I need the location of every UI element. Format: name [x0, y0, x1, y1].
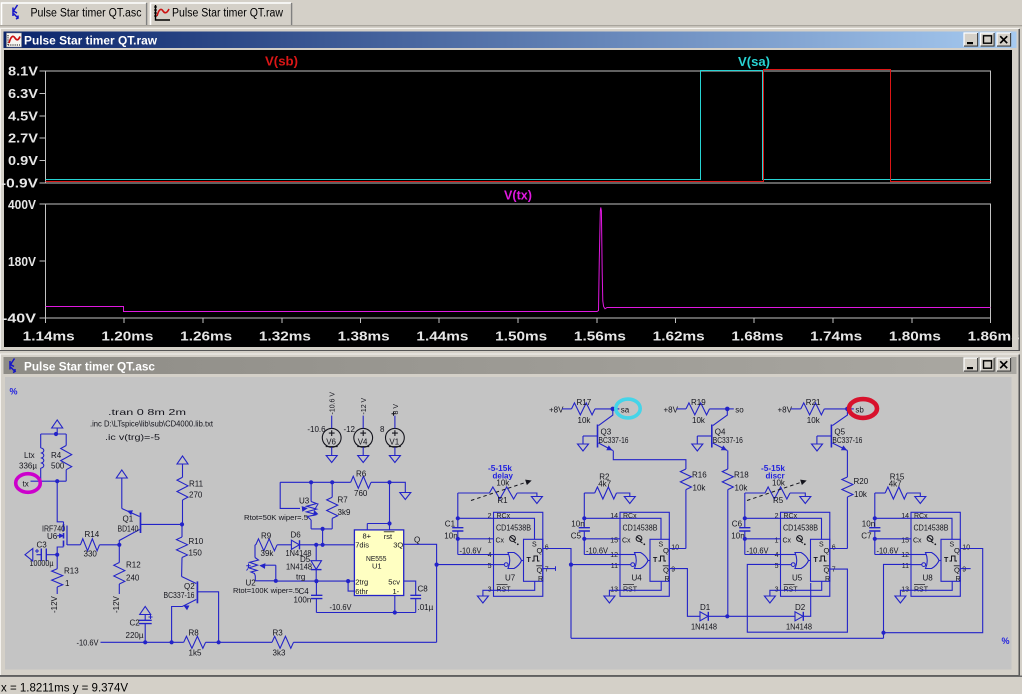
wire U7 Q out: [543, 549, 571, 639]
node junction U8 loop: [881, 631, 885, 635]
wire U5 Cx pin: [745, 538, 781, 540]
svg-text:3k3: 3k3: [273, 649, 286, 658]
node junction Q1 base/R11/R10: [180, 522, 184, 526]
svg-text:Q1: Q1: [123, 515, 134, 524]
svg-text:Ltx: Ltx: [24, 451, 35, 460]
wire bottom rail to node tx: [31, 480, 67, 482]
diode D1 1N4148: [700, 612, 708, 621]
capacitor C8 .01u: [410, 595, 421, 598]
ground at U7 RST: [477, 596, 488, 603]
wire U7 A-input -10.6V: [458, 554, 494, 556]
svg-text:Q2: Q2: [184, 582, 195, 591]
wire U7 Cx pin: [458, 538, 494, 540]
node junction top Ltx/R4: [54, 432, 58, 436]
ground below V6: [326, 456, 337, 463]
wire R6 node rail: [280, 481, 351, 483]
svg-text:1.14ms: 1.14ms: [23, 329, 75, 344]
resistor R17 10k: [562, 408, 572, 410]
wire to U4 pin11: [571, 564, 620, 566]
node junction U7Q/U4 trigger: [569, 563, 573, 567]
svg-text:Q: Q: [537, 546, 543, 555]
svg-text:0.9V: 0.9V: [8, 154, 39, 168]
wire U5 RCx pin: [745, 517, 781, 519]
svg-text:Q: Q: [824, 566, 830, 575]
wire NE555 supply pins 8 and rst: [389, 482, 391, 530]
svg-text:U3: U3: [299, 497, 310, 506]
svg-text:1.50ms: 1.50ms: [495, 329, 547, 344]
svg-text:10k: 10k: [693, 484, 707, 493]
resistor R18 10k: [722, 469, 733, 490]
svg-text:C7: C7: [861, 532, 872, 541]
svg-text:-10.6V: -10.6V: [877, 547, 900, 556]
IC U4 CD14538B: [620, 512, 669, 596]
wire U8 Q feedback loop: [884, 549, 983, 633]
op-amp timer U1 NE555: [354, 530, 403, 596]
svg-text:T: T: [527, 557, 532, 564]
svg-text:8+: 8+: [363, 531, 372, 540]
svg-text:12: 12: [610, 552, 618, 559]
annotation cyan circle around sa: [616, 399, 640, 418]
svg-text:Q: Q: [954, 546, 960, 555]
wire U7 RST to ground: [483, 581, 535, 596]
svg-text:U4: U4: [632, 574, 643, 583]
svg-text:1N4148: 1N4148: [286, 563, 313, 572]
svg-text:Q: Q: [414, 536, 420, 545]
resistor R20 10k: [842, 477, 853, 497]
potentiometer U3: [310, 482, 312, 501]
svg-text:10n: 10n: [444, 532, 457, 541]
svg-text:220µ: 220µ: [126, 631, 144, 640]
ground below V1: [389, 456, 400, 463]
svg-text:CD14538B: CD14538B: [496, 524, 531, 533]
svg-text:R20: R20: [854, 477, 869, 486]
svg-text:Cx: Cx: [913, 538, 922, 545]
svg-text:6thr: 6thr: [355, 587, 368, 596]
wire U4 Q to R16: [669, 548, 686, 550]
svg-text:-12V: -12V: [50, 595, 59, 613]
wire R3 to NE555 output node: [294, 641, 437, 643]
ground at U4 RST: [604, 596, 615, 603]
svg-text:C8: C8: [418, 585, 429, 594]
node junction C3/source: [55, 553, 59, 557]
wire U8 A-input -10.6V: [875, 554, 911, 556]
node junction bottom link: [321, 527, 325, 531]
svg-text:3Q: 3Q: [393, 540, 403, 549]
wire U8 trigger column: [884, 564, 912, 638]
resistor R19 10k: [677, 408, 687, 410]
wire U6 gate to R14: [67, 544, 80, 546]
node junction R18/diodes: [725, 614, 729, 618]
svg-text:1.62ms: 1.62ms: [653, 329, 705, 344]
svg-text:Q: Q: [954, 566, 960, 575]
wire down to D6 line: [322, 529, 324, 545]
svg-text:R: R: [956, 576, 961, 583]
svg-text:150: 150: [189, 549, 203, 558]
svg-text:10n: 10n: [731, 532, 744, 541]
svg-text:R14: R14: [85, 530, 100, 539]
svg-text:Cx: Cx: [622, 538, 631, 545]
svg-text:3k9: 3k9: [338, 508, 351, 517]
diode D5 1N4148 (vertical): [315, 545, 317, 561]
ground at Q4 base: [692, 444, 703, 451]
wire thr jog: [348, 581, 354, 591]
resistor R7 3k9: [331, 482, 333, 497]
wire U4 Cx pin: [584, 538, 620, 540]
svg-text:100n: 100n: [294, 596, 312, 605]
svg-text:R17: R17: [577, 398, 592, 407]
node junction Q2 collector/rail: [217, 640, 221, 644]
wire Q3 emitter to R16: [613, 451, 686, 470]
svg-text:1N4148: 1N4148: [786, 623, 813, 632]
wire D6 to NE555 dis pin: [300, 544, 355, 546]
resistor R10 150: [181, 524, 183, 537]
svg-text:Q: Q: [537, 566, 543, 575]
svg-text:trg: trg: [296, 573, 305, 582]
wire top rail Ltx/R4: [41, 433, 66, 435]
svg-text:+8V: +8V: [664, 405, 679, 414]
svg-text:R18: R18: [734, 471, 749, 480]
svg-text:R19: R19: [691, 398, 706, 407]
svg-text:sb: sb: [855, 405, 864, 414]
svg-text:5cv: 5cv: [388, 578, 400, 587]
svg-text:1.32ms: 1.32ms: [259, 329, 311, 344]
svg-text:330: 330: [84, 550, 98, 559]
svg-text:C6: C6: [732, 520, 743, 529]
ground below V4: [358, 456, 369, 463]
svg-text:R5: R5: [773, 496, 784, 505]
svg-text:-12: -12: [343, 425, 355, 434]
node junction Q2 emitter/rail: [170, 640, 174, 644]
svg-text:7: 7: [545, 567, 549, 574]
svg-text:-0.9V: -0.9V: [1, 177, 39, 191]
svg-text:1.80ms: 1.80ms: [889, 329, 941, 344]
svg-text:R1: R1: [497, 496, 508, 505]
svg-text:R: R: [825, 576, 830, 583]
svg-text:tx: tx: [23, 480, 29, 489]
capacitor C2 220u: [144, 615, 146, 621]
capacitor C4 100n: [315, 581, 317, 595]
wire NE555 5cv to C8: [404, 581, 416, 595]
ground at R15: [915, 497, 926, 504]
svg-text:4k7: 4k7: [889, 480, 902, 489]
node sb: [845, 407, 850, 412]
svg-text:R13: R13: [64, 567, 79, 576]
svg-text:10n: 10n: [571, 520, 584, 529]
wire D2 to U5 R pin: [803, 583, 810, 616]
svg-text:Q: Q: [824, 546, 830, 555]
capacitor C3 10000u: [40, 549, 42, 562]
svg-text:39k: 39k: [261, 549, 275, 558]
resistor R9 39k: [254, 544, 257, 546]
svg-text:Cx: Cx: [496, 538, 505, 545]
voltage source V1: [386, 428, 405, 447]
svg-text:240: 240: [126, 574, 140, 583]
svg-text:U5: U5: [792, 574, 803, 583]
ground at R5: [800, 497, 811, 504]
svg-text:T: T: [653, 557, 658, 564]
svg-text:R8: R8: [189, 629, 200, 638]
svg-text:RCx: RCx: [497, 513, 511, 520]
svg-text:10k: 10k: [854, 490, 868, 499]
svg-text:-10.6: -10.6: [307, 425, 326, 434]
svg-text:BC337-16: BC337-16: [832, 436, 862, 445]
svg-text:R21: R21: [806, 398, 821, 407]
node junction U3 drop: [321, 543, 325, 547]
resistor R15 4k7: [875, 492, 885, 494]
wire R9 to D6: [277, 544, 291, 546]
node junction 555Q to U7 trigger: [435, 563, 439, 567]
svg-text:U7: U7: [505, 574, 516, 583]
svg-text:CD14538B: CD14538B: [914, 524, 949, 533]
svg-text:760: 760: [354, 489, 368, 498]
svg-text:8: 8: [380, 425, 385, 434]
resistor R8 1k5: [184, 636, 206, 648]
svg-text:10k: 10k: [692, 416, 706, 425]
svg-text:R6: R6: [356, 470, 367, 479]
svg-text:10k: 10k: [735, 484, 749, 493]
svg-text:400V: 400V: [8, 198, 37, 212]
svg-text:R16: R16: [692, 471, 707, 480]
svg-text:BD140: BD140: [118, 525, 139, 534]
svg-text:T: T: [814, 557, 819, 564]
svg-text:CD14538B: CD14538B: [623, 524, 658, 533]
svg-text:12: 12: [901, 552, 909, 559]
wire U5 Qbar feedback loop: [747, 564, 847, 632]
svg-text:2.7V: 2.7V: [8, 132, 39, 146]
svg-text:so: so: [735, 405, 744, 414]
resistor R11 270: [182, 464, 184, 477]
ground at Q5 base: [812, 444, 823, 451]
resistor R14 330: [80, 539, 99, 551]
svg-text:1-: 1-: [393, 587, 400, 596]
svg-text:10k: 10k: [578, 416, 592, 425]
svg-text:4: 4: [488, 552, 492, 559]
diode D6 1N4148: [291, 540, 299, 549]
resistor R1 10k: [458, 492, 490, 494]
svg-text:-12 V: -12 V: [361, 397, 368, 414]
svg-text:RCx: RCx: [914, 513, 928, 520]
svg-text:1.38ms: 1.38ms: [338, 329, 390, 344]
svg-text:U8: U8: [923, 574, 934, 583]
diode D2 1N4148: [795, 612, 803, 621]
svg-text:-40V: -40V: [2, 312, 37, 326]
svg-text:R12: R12: [126, 561, 141, 570]
svg-text:4k7: 4k7: [598, 480, 611, 489]
svg-text:T: T: [944, 557, 949, 564]
svg-text:-12V: -12V: [112, 595, 121, 613]
svg-text:R4: R4: [51, 451, 62, 460]
svg-text:336µ: 336µ: [19, 462, 37, 471]
ground at R2: [624, 497, 635, 504]
resistor R4: [65, 434, 67, 446]
wire 555 bottom rail: [316, 612, 415, 614]
wire NE555 Q to U7 pin5: [437, 564, 494, 566]
capacitor C5 10n: [583, 493, 585, 528]
svg-text:V1: V1: [389, 437, 399, 446]
svg-text:-10.6V: -10.6V: [586, 547, 609, 556]
resistor R21 10k: [791, 408, 801, 410]
svg-text:8.1V: 8.1V: [8, 65, 39, 79]
node junction R14/R12/Q1: [117, 543, 121, 547]
svg-text:R: R: [538, 576, 543, 583]
IC U5 CD14538B: [781, 512, 830, 596]
svg-text:BC337-16: BC337-16: [164, 591, 195, 600]
transistor Q5 BC337-16: [830, 425, 832, 448]
svg-text:4.5V: 4.5V: [8, 109, 39, 123]
svg-text:1.26ms: 1.26ms: [180, 329, 232, 344]
wire -10.6V rail: [101, 641, 184, 643]
svg-text:9: 9: [671, 567, 675, 574]
voltage source V6: [322, 428, 341, 447]
resistor R12 240: [118, 545, 120, 563]
svg-text:R10: R10: [189, 537, 204, 546]
svg-text:R3: R3: [273, 629, 284, 638]
IC U7 CD14538B: [494, 512, 543, 596]
inductor Ltx: [40, 434, 42, 448]
resistor R3 3k3: [272, 636, 294, 648]
svg-text:11: 11: [902, 563, 909, 570]
svg-text:BC337-16: BC337-16: [599, 436, 629, 445]
svg-text:1.86ms: 1.86ms: [968, 329, 1020, 344]
power flag left of C3: [25, 549, 33, 562]
ground at U5 RST: [764, 596, 775, 603]
svg-text:rst: rst: [384, 532, 393, 541]
transistor Q3 BC337-16: [597, 425, 599, 448]
svg-text:V6: V6: [326, 437, 336, 446]
capacitor C7 10n: [874, 493, 876, 528]
node junction trg/C4: [314, 579, 318, 583]
svg-text:1N4148: 1N4148: [691, 623, 718, 632]
transistor Q1 BD140: [121, 478, 123, 509]
capacitor C6 10n: [744, 493, 746, 528]
wire U3/R7 bottom: [311, 528, 332, 530]
IC U8 CD14538B: [911, 512, 960, 596]
resistor R2 4k7: [584, 492, 594, 494]
node junction U3 top: [309, 480, 313, 484]
svg-text:-10.6V: -10.6V: [330, 603, 353, 612]
svg-text:V(sa): V(sa): [738, 55, 770, 69]
svg-text:C1: C1: [445, 520, 456, 529]
transistor Q2 BC337-16: [196, 581, 198, 603]
wire NE555 output Q: [404, 544, 437, 642]
voltage source V4: [354, 428, 373, 447]
svg-text:-10.6V: -10.6V: [460, 547, 483, 556]
svg-text:1: 1: [65, 579, 70, 588]
wire U7 Qbar stub: [543, 568, 556, 570]
svg-text:.tran 0 8m 2m: .tran 0 8m 2m: [108, 407, 186, 417]
wire U7 RCx pin: [458, 517, 494, 519]
wire U4 A-input -10.6V: [584, 554, 620, 556]
wire U8 RCx pin: [875, 517, 911, 519]
wire U4 RST to ground: [609, 581, 661, 596]
svg-text:.01µ: .01µ: [418, 603, 434, 612]
wire U4 RCx pin: [584, 517, 620, 519]
ground at U8 RST: [895, 596, 906, 603]
wire U2 bottom / trg net: [255, 565, 275, 581]
svg-text:delay: delay: [493, 472, 514, 481]
svg-text:RCx: RCx: [623, 513, 637, 520]
svg-text:.inc D:\LTspice\lib\sub\CD4000: .inc D:\LTspice\lib\sub\CD4000.lib.txt: [90, 419, 214, 429]
svg-text:BC337-16: BC337-16: [713, 436, 743, 445]
svg-text:R9: R9: [261, 532, 272, 541]
node junction C2/rail: [143, 640, 147, 644]
svg-text:CD14538B: CD14538B: [783, 524, 818, 533]
wire U4 Qbar to D1: [669, 569, 700, 617]
wire long U7Q to U8 column: [571, 637, 884, 639]
svg-text:11: 11: [611, 563, 618, 570]
wire U8 Cx pin: [875, 538, 911, 540]
svg-text:180V: 180V: [8, 255, 37, 269]
svg-text:270: 270: [189, 491, 203, 500]
power flag above C2: [140, 607, 151, 615]
svg-text:C5: C5: [571, 532, 582, 541]
annotation red circle around sb: [849, 399, 877, 418]
capacitor C1 10n: [457, 493, 459, 528]
wire U8 Qbar stub: [960, 568, 970, 570]
svg-text:%: %: [1002, 636, 1010, 646]
svg-text:Q: Q: [663, 546, 669, 555]
node so: [725, 407, 730, 412]
svg-text:D1: D1: [700, 603, 711, 612]
svg-text:C2: C2: [130, 619, 141, 628]
wire U5 A-input -10.6V: [745, 554, 781, 556]
annotation magenta circle around tx: [16, 474, 41, 493]
svg-text:1k5: 1k5: [189, 649, 202, 658]
wire rail R8 to R3: [206, 641, 272, 643]
node junction 555 pin1/rail: [393, 610, 397, 614]
svg-text:10k: 10k: [807, 416, 821, 425]
wire Q4 emitter to R18: [727, 451, 729, 470]
resistor R16 10k: [680, 469, 691, 490]
ground at R1: [531, 497, 542, 504]
svg-text:V4: V4: [358, 437, 368, 446]
power flag above Ltx/R4: [52, 420, 63, 428]
wire D1 to D2: [708, 615, 795, 617]
wire Q5 emitter to R20: [846, 451, 848, 478]
svg-text:-10.6 V: -10.6 V: [330, 392, 337, 415]
svg-text:Pulse Star timer QT.asc: Pulse Star timer QT.asc: [31, 8, 142, 20]
svg-text:R: R: [665, 576, 670, 583]
svg-text:-10.6V: -10.6V: [747, 547, 770, 556]
svg-text:500: 500: [51, 462, 65, 471]
svg-text:U1: U1: [372, 561, 382, 570]
resistor R5 10k: [745, 492, 765, 494]
transistor U6 IRF740 MOSFET: [63, 522, 65, 529]
svg-text:10n: 10n: [862, 520, 875, 529]
svg-text:U6: U6: [47, 532, 58, 541]
svg-text:D2: D2: [795, 603, 806, 612]
svg-text:Pulse Star timer QT.raw: Pulse Star timer QT.raw: [24, 33, 158, 47]
svg-text:+8V: +8V: [778, 405, 793, 414]
svg-text:Rtot=50K wiper=.5: Rtot=50K wiper=.5: [244, 513, 308, 522]
svg-text:5: 5: [488, 563, 492, 570]
svg-text:V(sb): V(sb): [265, 55, 298, 69]
svg-text:1.44ms: 1.44ms: [416, 329, 468, 344]
svg-text:x = 1.8211ms y = 9.374V: x = 1.8211ms y = 9.374V: [1, 683, 128, 694]
resistor R13: [56, 555, 58, 569]
wire NE555 pin1 down: [394, 596, 396, 613]
svg-text:1.68ms: 1.68ms: [731, 329, 783, 344]
svg-text:V(tx): V(tx): [504, 189, 532, 203]
node junction R6 right / NE555 supply: [387, 480, 391, 484]
ground right of R6: [400, 493, 411, 500]
svg-text:Q: Q: [663, 566, 669, 575]
svg-text:discr: discr: [766, 472, 785, 481]
svg-text:D6: D6: [291, 531, 302, 540]
svg-text:5: 5: [775, 563, 779, 570]
ground at Q3 base: [578, 444, 589, 451]
power flag above Q1 emitter: [116, 470, 127, 478]
